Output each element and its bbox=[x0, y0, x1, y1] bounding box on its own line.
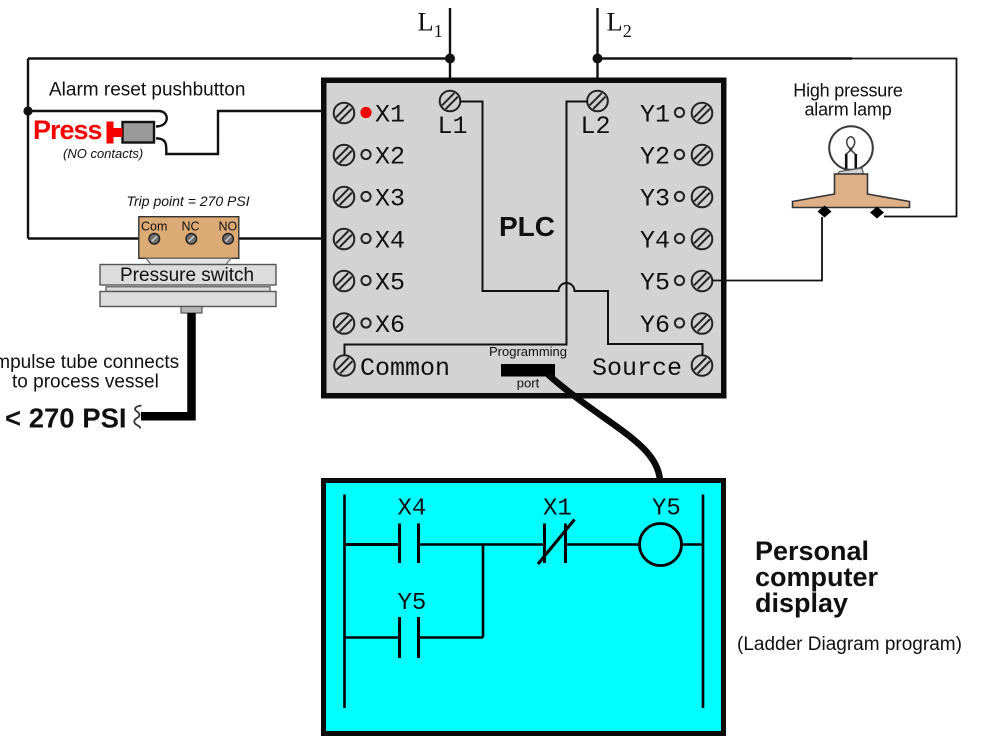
contact X1 normally-closed bbox=[538, 520, 575, 565]
svg-text:Y5: Y5 bbox=[640, 269, 670, 298]
wire from branch dot to pushbutton upper contact bbox=[28, 111, 167, 127]
coil Y5 bbox=[640, 524, 682, 566]
svg-text:NO: NO bbox=[219, 220, 238, 234]
screw Common bbox=[334, 355, 355, 376]
contact X4 bbox=[345, 524, 419, 564]
internal wire L1 to Source bbox=[460, 102, 703, 357]
led X6 bbox=[361, 318, 370, 327]
ladder rung 1 wire bbox=[345, 543, 704, 546]
ladder right rail bbox=[702, 495, 705, 709]
impulse tube break squiggle bbox=[134, 406, 141, 429]
wire from pushbutton lower contact to X1 terminal bbox=[156, 111, 336, 154]
wire top-left horizontal from L1 dot to left corner bbox=[28, 57, 450, 59]
svg-text:alarm lamp: alarm lamp bbox=[804, 100, 891, 120]
led X3 bbox=[361, 192, 370, 201]
screw NO bbox=[223, 234, 234, 245]
lamp glass seat bbox=[838, 168, 864, 174]
svg-text:Y5: Y5 bbox=[398, 590, 427, 617]
screw X2 bbox=[334, 145, 355, 166]
pressure switch middle thin plate bbox=[106, 287, 270, 292]
svg-text:X6: X6 bbox=[375, 311, 405, 340]
svg-text:(Ladder Diagram program): (Ladder Diagram program) bbox=[737, 634, 962, 655]
svg-text:(NO contacts): (NO contacts) bbox=[63, 146, 143, 161]
screw Y2 bbox=[692, 145, 713, 166]
led Y1 bbox=[675, 108, 684, 117]
wire L1 vertical drop from top bbox=[449, 8, 451, 96]
pressure switch top plate bbox=[100, 265, 276, 286]
pressure switch terminal box bbox=[139, 217, 239, 259]
led Y5 bbox=[675, 276, 684, 285]
svg-text:Programming: Programming bbox=[489, 344, 567, 359]
led X2 bbox=[361, 150, 370, 159]
svg-text:Source: Source bbox=[592, 354, 682, 383]
screw Y4 bbox=[692, 229, 713, 250]
node L1 junction dot bbox=[445, 54, 455, 64]
computer display bezel bbox=[324, 481, 724, 734]
pressure switch neck trapezoid bbox=[146, 258, 231, 264]
svg-text:Y3: Y3 bbox=[640, 185, 670, 214]
svg-text:port: port bbox=[517, 376, 540, 391]
svg-text:Y6: Y6 bbox=[640, 311, 670, 340]
pushbutton red actuator bbox=[107, 122, 123, 144]
svg-text:L1: L1 bbox=[418, 7, 443, 42]
svg-text:X5: X5 bbox=[375, 269, 405, 298]
wire from NO terminal to X4 bbox=[232, 237, 336, 239]
svg-text:High pressure: High pressure bbox=[793, 81, 903, 101]
screw Y5 bbox=[692, 271, 713, 292]
screw X3 bbox=[334, 187, 355, 208]
internal wire L2 to Common bbox=[345, 102, 588, 357]
lamp left terminal bbox=[818, 206, 832, 218]
pressure switch pipe stub bbox=[181, 307, 202, 314]
svg-text:Pressure switch: Pressure switch bbox=[120, 265, 254, 286]
screw NC bbox=[186, 234, 197, 245]
wire left vertical down to pressure switch bbox=[27, 59, 29, 239]
screw Y3 bbox=[692, 187, 713, 208]
svg-text:NC: NC bbox=[182, 220, 200, 234]
svg-text:Com: Com bbox=[141, 220, 167, 234]
screw Y1 bbox=[692, 103, 713, 124]
svg-text:L2: L2 bbox=[607, 7, 632, 42]
impulse tube bbox=[141, 313, 192, 416]
pushbutton body bbox=[123, 122, 155, 143]
screw X5 bbox=[334, 271, 355, 292]
svg-text:L1: L1 bbox=[438, 112, 468, 141]
svg-text:Alarm reset pushbutton: Alarm reset pushbutton bbox=[49, 80, 245, 101]
node L2 junction dot bbox=[593, 54, 603, 64]
lamp filament bbox=[846, 137, 856, 155]
led Y3 bbox=[675, 192, 684, 201]
svg-text:PLC: PLC bbox=[499, 211, 555, 242]
ladder rung 2 wire bbox=[345, 636, 484, 639]
screw L2 bbox=[587, 91, 608, 112]
led X1 red bbox=[360, 107, 371, 118]
svg-text:Trip point = 270 PSI: Trip point = 270 PSI bbox=[127, 193, 250, 209]
programming port bbox=[501, 364, 555, 377]
led Y4 bbox=[675, 234, 684, 243]
svg-text:< 270 PSI: < 270 PSI bbox=[5, 403, 127, 434]
wire lamp right thin segment bbox=[852, 59, 957, 217]
screw X1 bbox=[334, 103, 355, 124]
svg-text:X1: X1 bbox=[543, 496, 572, 523]
svg-text:X2: X2 bbox=[375, 143, 405, 172]
screw Y6 bbox=[692, 313, 713, 334]
pressure switch bottom plate bbox=[100, 292, 276, 307]
screw Source bbox=[692, 355, 713, 376]
wire L2 vertical drop from top bbox=[596, 8, 598, 96]
svg-text:Y4: Y4 bbox=[640, 227, 670, 256]
svg-text:Y2: Y2 bbox=[640, 143, 670, 172]
svg-text:Common: Common bbox=[360, 354, 450, 383]
svg-text:Impulse tube connects: Impulse tube connects bbox=[0, 352, 179, 373]
svg-text:Press: Press bbox=[33, 115, 102, 145]
lamp filament prongs bbox=[846, 154, 856, 169]
lamp right terminal bbox=[870, 207, 884, 219]
node pushbutton branch dot bbox=[23, 106, 32, 115]
lamp socket base bbox=[793, 174, 910, 208]
PLC body bbox=[324, 80, 724, 396]
wire from left vertical to Com terminal bbox=[28, 237, 150, 239]
led X5 bbox=[361, 276, 370, 285]
screw Com bbox=[149, 234, 160, 245]
led Y6 bbox=[675, 318, 684, 327]
led Y2 bbox=[675, 150, 684, 159]
svg-text:X4: X4 bbox=[398, 496, 427, 523]
ladder left rail bbox=[343, 495, 346, 709]
svg-text:X1: X1 bbox=[375, 101, 405, 130]
svg-text:X4: X4 bbox=[375, 227, 405, 256]
ladder branch vertical bbox=[482, 545, 485, 638]
programming cable bbox=[548, 375, 660, 482]
svg-text:to process vessel: to process vessel bbox=[12, 372, 159, 393]
led X4 bbox=[361, 234, 370, 243]
wire L2 to lamp right terminal bbox=[598, 57, 853, 59]
svg-text:Y5: Y5 bbox=[652, 496, 681, 523]
lamp bulb glass bbox=[829, 126, 873, 170]
screw L1 bbox=[440, 91, 461, 112]
svg-text:display: display bbox=[755, 588, 848, 618]
svg-text:L2: L2 bbox=[581, 112, 611, 141]
contact Y5 bbox=[400, 617, 419, 658]
screw X4 bbox=[334, 229, 355, 250]
svg-text:X3: X3 bbox=[375, 185, 405, 214]
wire Y5 to lamp bbox=[712, 217, 822, 281]
svg-text:Y1: Y1 bbox=[640, 101, 670, 130]
screw X6 bbox=[334, 313, 355, 334]
